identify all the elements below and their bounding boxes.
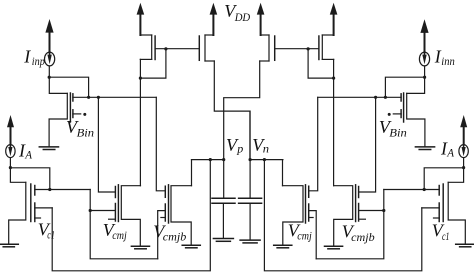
transistor M7 input bar top	[308, 186, 310, 197]
transistor M3 (Vcmjb left) gate bar	[168, 185, 170, 223]
svg-text:Bin: Bin	[77, 126, 95, 140]
svg-text:p: p	[236, 141, 243, 155]
VDD arrow right outer	[330, 3, 338, 35]
transistor M6 gate bar	[403, 93, 405, 122]
capacitor C2 plates	[239, 198, 262, 203]
label VBin right	[379, 117, 407, 140]
wire P1 gate to P2 gate	[155, 48, 199, 50]
wire row97 down to M2 gate	[98, 97, 115, 192]
transistor M8 input bar top	[358, 187, 360, 198]
svg-text:A: A	[24, 148, 32, 162]
wire M7 mid input down to rail	[309, 211, 317, 259]
wire Iinp to node	[48, 66, 50, 77]
transistor P4 (outer right PMOS)	[319, 35, 334, 60]
transistor M9 input bar bottom	[438, 203, 440, 222]
wire Iinn node down to M6 drain	[407, 77, 425, 93]
label IA right	[440, 138, 455, 159]
transistor M6 input bar top	[400, 94, 402, 101]
node dot row97 right	[374, 96, 377, 99]
label Vn	[252, 135, 269, 156]
svg-text:cmjb: cmjb	[351, 230, 375, 244]
node dot Vn	[249, 158, 252, 161]
transistor M3 channel	[171, 186, 192, 245]
current source Iinn arrow	[420, 19, 428, 52]
label Vcmjb left	[153, 221, 186, 243]
label Vc1 right	[432, 221, 450, 243]
ground under M3	[182, 245, 200, 248]
transistor M7 (inner right) gate bar	[305, 185, 307, 223]
wire IA right to node	[463, 158, 465, 168]
label IA left	[18, 140, 33, 161]
transistor M4 input bar bottom	[34, 203, 36, 222]
transistor M2 input bar top	[114, 187, 116, 198]
node dot P1 source	[139, 77, 142, 80]
wire M4 mid input	[35, 207, 52, 209]
wire IA node to M4 top stub	[10, 168, 49, 190]
wire P3 source to Vp	[224, 61, 260, 198]
wire M2 mid input	[90, 210, 115, 212]
transistor M8 input bar bottom	[358, 204, 360, 222]
node dot Vp	[222, 158, 225, 161]
transistor M1 input bar bottom	[72, 110, 74, 118]
node dot M2 mid	[89, 209, 92, 212]
label Vcmj left	[103, 220, 128, 242]
wire row97 left down to M7 gate	[309, 97, 318, 191]
capacitor C1 plates	[212, 198, 235, 203]
transistor M1 input bar top	[72, 94, 74, 101]
wire IA right node to M9 top stub	[424, 168, 463, 190]
transistor M7 drain from Vn	[282, 160, 284, 186]
transistor P2 (center left PMOS)	[199, 35, 214, 61]
svg-text:A: A	[446, 146, 454, 160]
label VDD	[224, 1, 250, 24]
wire M1 top input to Iinp row	[73, 96, 156, 98]
wire row97 right down to M3 gate	[156, 97, 165, 191]
wire outer rail right	[264, 160, 421, 271]
transistor M9 input bar top	[438, 186, 440, 196]
current source Iinp arrow	[45, 19, 53, 53]
bullet VBin left	[83, 113, 86, 116]
wire P1 source down to M2 drain	[139, 59, 141, 185]
svg-text:DD: DD	[234, 10, 251, 24]
transistor M7 channel	[283, 186, 304, 245]
transistor M8 channel	[334, 186, 353, 246]
transistor M6 (VBin right) channel	[407, 93, 425, 146]
wire Iinp node down to M1 drain	[49, 77, 67, 93]
node dot row97	[97, 96, 100, 99]
wire Vp line	[192, 159, 224, 161]
node dot IA left	[9, 166, 12, 169]
transistor M3 drain from Vp	[191, 160, 193, 186]
svg-text:cmj: cmj	[297, 229, 312, 243]
transistor M4 (Vc1 left) channel	[9, 182, 26, 243]
wire row97 right down to M8 gate	[359, 97, 376, 192]
node dot P4 source	[332, 77, 335, 80]
wire Vn line	[250, 159, 283, 161]
wire P4 gate diode loop	[308, 49, 334, 78]
wire M6 VBin stub	[393, 113, 401, 115]
current source IA left arrow	[7, 115, 14, 145]
wire M9 top input row	[384, 189, 439, 191]
transistor M9 (Vc1 right) channel	[448, 182, 465, 243]
ground under M8	[325, 246, 343, 249]
wire inner rail left	[90, 190, 158, 259]
node dot P1 gate	[164, 47, 167, 50]
wire Iinp node to M1 drain stub	[49, 77, 88, 97]
wire M3 mid input down to rail	[158, 211, 166, 259]
wire IA left to node	[9, 158, 11, 168]
current source IA right circle	[459, 145, 468, 158]
label Vp	[226, 135, 243, 156]
node dot M9 diode	[423, 188, 426, 191]
wire M2 short stub	[109, 218, 116, 220]
wire P2 source to Vn	[214, 61, 250, 160]
transistor M1 (VBin left) channel	[49, 93, 67, 146]
transistor M1 gate bar	[69, 93, 71, 122]
wire M9 Vc1 stub	[434, 217, 440, 219]
node dot IA right	[462, 166, 465, 169]
capacitor C2 stem and ground	[249, 203, 251, 239]
node dot Vn rail	[263, 158, 266, 161]
node dot M4 diode	[48, 188, 51, 191]
svg-text:cmjb: cmjb	[163, 230, 187, 244]
transistor M2 channel	[121, 186, 140, 246]
svg-text:inp: inp	[32, 54, 45, 68]
label Iinn	[434, 46, 455, 68]
transistor M3 input bar bottom	[164, 204, 166, 221]
wire M4 Vc1 stub	[35, 217, 41, 219]
node dot M8 mid	[382, 209, 385, 212]
node dot Iinp	[48, 76, 51, 79]
bullet VBin right	[388, 113, 391, 116]
ground under M7	[274, 245, 292, 248]
current source Iinn circle	[419, 52, 429, 66]
wire Iinn to node	[424, 66, 426, 77]
wire P1 gate diode loop	[140, 49, 166, 78]
svg-text:n: n	[263, 141, 269, 155]
node dot P4 gate	[307, 47, 310, 50]
wire M8 short stub	[359, 218, 366, 220]
ground under M4	[1, 244, 19, 247]
transistor M4 input bar top	[34, 186, 36, 196]
ground under M1	[39, 147, 58, 150]
transistor P1 (outer left PMOS)	[140, 35, 155, 60]
ground under M9	[456, 244, 474, 247]
svg-text:inn: inn	[441, 54, 455, 68]
transistor M2 input bar bottom	[114, 204, 116, 222]
node dot M1 stub	[87, 96, 90, 99]
label Iinp	[23, 46, 45, 68]
VDD arrow center right	[257, 3, 265, 35]
current source Iinp circle	[45, 52, 55, 66]
wire M8 mid input	[359, 210, 384, 212]
wire inner rail right	[316, 190, 384, 259]
current source IA right arrow	[460, 115, 467, 145]
capacitor C1 stem and ground	[222, 203, 224, 238]
wire IA node down to M4 drain	[10, 168, 25, 183]
transistor M2 (Vcmj left) gate bar	[117, 185, 119, 222]
svg-text:I: I	[23, 46, 31, 66]
label VBin left	[66, 117, 94, 140]
wire Iinn node to M6 drain stub	[385, 77, 424, 97]
wire outer rail left	[52, 160, 210, 271]
transistor M9 gate bar	[442, 184, 444, 222]
wire P4 source down to M8 drain	[333, 59, 335, 185]
wire P3 gate to P4 gate	[275, 48, 319, 50]
svg-text:cmj: cmj	[112, 228, 127, 242]
transistor P3 (center right PMOS)	[260, 35, 275, 61]
label Vc1 left	[38, 219, 55, 241]
node dot Vp rail	[209, 158, 212, 161]
svg-text:c1: c1	[47, 227, 55, 241]
wire M9 mid input	[422, 207, 439, 209]
transistor M3 input bar top	[164, 186, 166, 197]
ground under M6	[415, 147, 434, 150]
node dot M6 stub	[384, 96, 387, 99]
current source IA left circle	[6, 145, 15, 158]
label Vcmj right	[288, 221, 313, 243]
transistor M8 (middle right) gate bar	[355, 185, 357, 222]
wire M4 top input row	[35, 189, 90, 191]
wire M1 VBin stub	[73, 113, 81, 115]
transistor M4 gate bar	[30, 184, 32, 222]
wire M6 top input to Iinn row	[318, 96, 401, 98]
svg-text:c1: c1	[442, 229, 450, 243]
VDD arrow left outer	[137, 3, 145, 35]
transistor M6 input bar bottom	[400, 110, 402, 118]
VDD arrow center left	[210, 3, 218, 35]
wire Vn vertical	[249, 111, 251, 198]
wire IA right node down to M9 drain	[448, 168, 463, 183]
svg-text:Bin: Bin	[389, 126, 407, 140]
node dot Iinn	[423, 76, 426, 79]
transistor M7 input bar bottom	[308, 204, 310, 221]
label Vcmjb right	[342, 222, 375, 244]
ground under M2	[131, 246, 149, 249]
wire M7 short stub	[309, 217, 313, 219]
wire M3 short stub	[161, 217, 165, 219]
